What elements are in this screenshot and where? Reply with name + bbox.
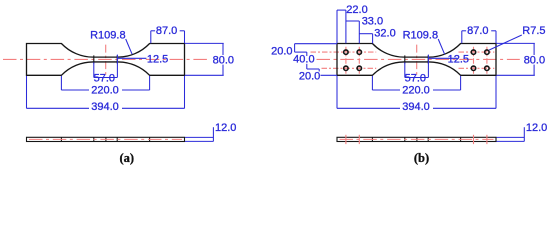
svg-text:12.5: 12.5 <box>147 53 168 65</box>
svg-text:32.0: 32.0 <box>374 28 395 40</box>
svg-text:394.0: 394.0 <box>91 101 119 113</box>
svg-text:12.0: 12.0 <box>526 122 547 134</box>
svg-text:(a): (a) <box>120 151 135 165</box>
svg-text:33.0: 33.0 <box>362 15 383 27</box>
svg-text:80.0: 80.0 <box>213 54 234 66</box>
svg-text:57.0: 57.0 <box>94 72 115 84</box>
svg-text:220.0: 220.0 <box>402 84 430 96</box>
svg-text:20.0: 20.0 <box>271 45 292 57</box>
svg-text:12.0: 12.0 <box>215 122 236 134</box>
svg-text:57.0: 57.0 <box>405 72 426 84</box>
svg-text:87.0: 87.0 <box>467 25 488 37</box>
svg-text:80.0: 80.0 <box>524 54 545 66</box>
svg-text:R109.8: R109.8 <box>90 30 125 42</box>
svg-text:20.0: 20.0 <box>299 71 320 83</box>
svg-text:R7.5: R7.5 <box>522 25 545 37</box>
svg-text:220.0: 220.0 <box>91 84 119 96</box>
svg-text:(b): (b) <box>414 151 429 165</box>
svg-text:40.0: 40.0 <box>293 54 314 66</box>
svg-text:R109.8: R109.8 <box>403 30 438 42</box>
svg-text:22.0: 22.0 <box>346 4 367 16</box>
svg-text:394.0: 394.0 <box>402 101 430 113</box>
svg-text:87.0: 87.0 <box>156 25 177 37</box>
svg-text:12.5: 12.5 <box>448 53 469 65</box>
